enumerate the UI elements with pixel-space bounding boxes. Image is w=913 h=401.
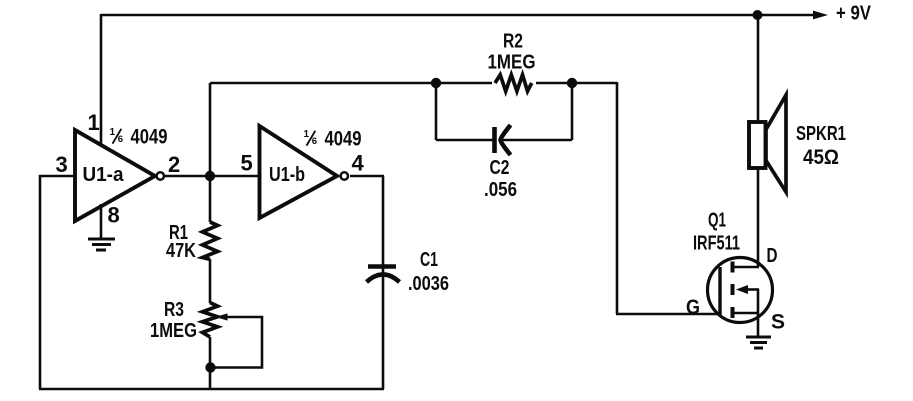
wire: R3 wiper arm xyxy=(211,317,262,368)
label 1/6 4049 for U1-b xyxy=(304,128,362,151)
capacitor C2 .056 straight plate xyxy=(492,127,497,153)
wire: C2 branch left vertical xyxy=(435,83,438,140)
svg-text:1: 1 xyxy=(110,127,116,138)
svg-text:1: 1 xyxy=(88,110,100,135)
wire: U1-a output to U1-b input xyxy=(165,175,262,178)
node junction dot A (U1-a out / R1 / U1-b in) xyxy=(205,171,215,181)
wire: C2 branch right vertical xyxy=(571,83,574,140)
capacitor C1 curved plate xyxy=(367,275,400,283)
svg-text:C1: C1 xyxy=(420,249,438,271)
wire: gate lead to Q1 xyxy=(616,313,720,316)
resistor R3 1MEG potentiometer zigzag xyxy=(202,303,217,338)
svg-text:G: G xyxy=(686,296,700,319)
Q1 drain lead xyxy=(733,266,759,269)
node junction dot R2/C2 left xyxy=(431,78,441,88)
wire: pin 8 ground stub xyxy=(100,204,103,238)
svg-text:6: 6 xyxy=(118,134,123,145)
wire: bottom rail xyxy=(39,388,384,391)
wire: Q1 source down to ground xyxy=(757,289,760,337)
R3 wiper arrowhead xyxy=(216,313,228,320)
Q1 gate bar xyxy=(718,267,721,316)
node: U1-a output bubble xyxy=(157,172,164,179)
svg-text:R2: R2 xyxy=(503,31,523,53)
wire: pin 1 drop to U1-a xyxy=(100,14,103,148)
svg-text:Q1: Q1 xyxy=(708,210,726,232)
wire: R2 left lead xyxy=(436,82,492,85)
svg-text:4: 4 xyxy=(352,151,365,176)
svg-text:.056: .056 xyxy=(484,179,517,201)
svg-text:3: 3 xyxy=(56,152,68,177)
Q1 source lead xyxy=(733,312,759,315)
svg-text:1MEG: 1MEG xyxy=(150,320,197,342)
svg-text:1: 1 xyxy=(304,129,310,140)
svg-text:4049: 4049 xyxy=(131,126,168,149)
wire: C2 branch left horizontal xyxy=(436,139,493,142)
node junction dot R3 wiper tie xyxy=(205,362,215,372)
svg-text:6: 6 xyxy=(312,136,317,147)
resistor R1 47K zigzag xyxy=(202,222,217,259)
svg-text:5: 5 xyxy=(241,151,253,176)
svg-text:U1-a: U1-a xyxy=(83,164,125,186)
svg-text:IRF511: IRF511 xyxy=(693,233,740,255)
op-amp U1-b inverter triangle xyxy=(260,126,338,218)
capacitor C2 curved plate xyxy=(501,125,511,155)
Q1 channel tick middle (body) xyxy=(731,284,735,295)
Q1 channel tick top (drain) xyxy=(731,262,735,273)
wire: node A to R2 branch horizontal xyxy=(210,82,436,85)
svg-text:U1-b: U1-b xyxy=(269,164,305,186)
wire: U1-b output to C1 xyxy=(350,175,384,178)
svg-text:SPKR1: SPKR1 xyxy=(796,123,846,145)
label 1/6 4049 for U1-a xyxy=(110,126,168,149)
Q1 channel tick bottom (source) xyxy=(731,307,735,318)
resistor R2 1MEG zigzag xyxy=(495,75,532,91)
transistor Q1 IRF511 MOSFET body circle xyxy=(708,258,773,323)
wire: speaker vertical / Q1 drain xyxy=(757,15,760,267)
svg-text:8: 8 xyxy=(108,203,120,228)
wire: corner down to gate level xyxy=(616,82,619,314)
svg-text:C2: C2 xyxy=(490,157,510,179)
svg-text:1MEG: 1MEG xyxy=(488,52,536,74)
wire: node A vertical (R1/R3 chain) xyxy=(209,83,212,389)
svg-text:.0036: .0036 xyxy=(408,273,449,295)
wire: C1 vertical xyxy=(382,176,385,389)
svg-text:2: 2 xyxy=(168,152,180,177)
node junction dot R2/C2 right xyxy=(567,78,577,88)
svg-text:S: S xyxy=(771,311,785,334)
ground under U1-a pin 8 xyxy=(88,239,115,250)
+9V supply arrowhead xyxy=(813,11,828,20)
node: U1-b output bubble xyxy=(341,172,348,179)
speaker SPKR1 driver box xyxy=(749,122,766,168)
svg-text:+ 9V: + 9V xyxy=(836,3,872,25)
wire: +9V top rail xyxy=(101,14,814,17)
svg-text:47K: 47K xyxy=(166,240,196,262)
svg-text:D: D xyxy=(767,245,778,267)
speaker SPKR1 cone xyxy=(766,95,786,192)
capacitor C1 .0036 straight plate xyxy=(368,264,396,268)
ground under Q1 source xyxy=(746,337,771,348)
node junction dot +9V / speaker xyxy=(753,10,763,20)
Q1 body lead with arrow xyxy=(746,288,759,291)
wire: pin 3 input stub xyxy=(39,175,78,178)
wire: right of R2 to corner xyxy=(572,82,617,85)
svg-text:R3: R3 xyxy=(164,299,184,321)
svg-text:4049: 4049 xyxy=(325,128,362,151)
wire: C2 branch right horizontal xyxy=(502,139,572,142)
wire: R2 right lead xyxy=(536,82,572,85)
wire: left vertical feedback xyxy=(39,175,42,389)
svg-text:45Ω: 45Ω xyxy=(803,146,839,169)
op-amp U1-a inverter triangle xyxy=(75,130,155,221)
